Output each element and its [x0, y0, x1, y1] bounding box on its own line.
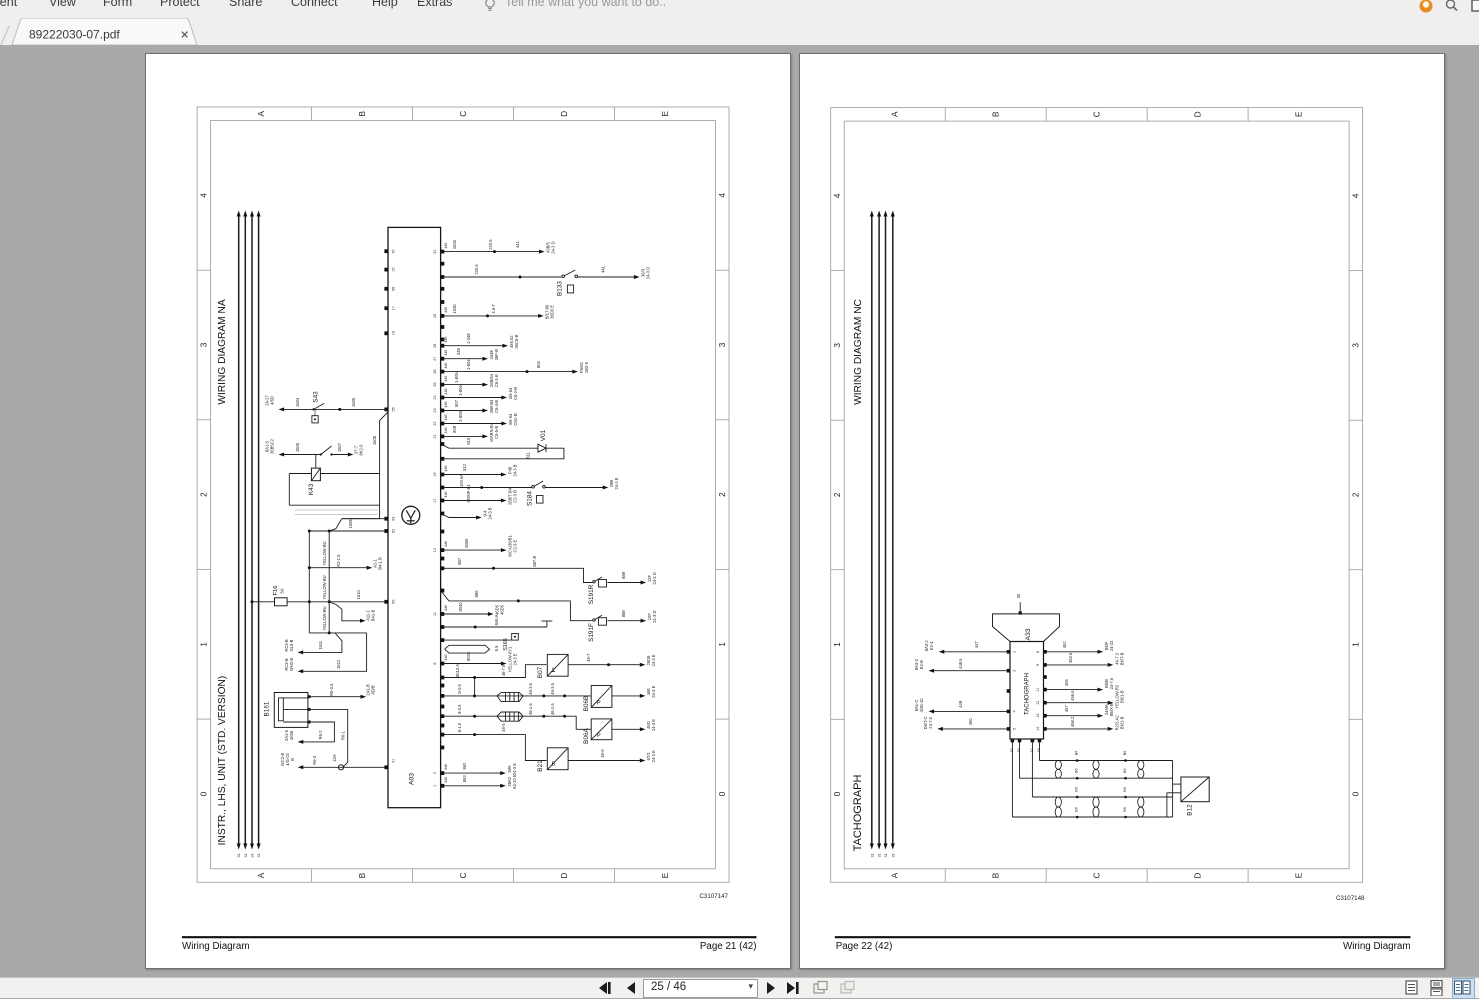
- A03 pin: [441, 472, 445, 476]
- source arrow: [279, 407, 285, 411]
- svg-text:4/6D: 4/6D: [270, 396, 275, 405]
- svg-text:B21: B21: [537, 759, 544, 771]
- A03 right pin: [441, 556, 445, 560]
- svg-text:450: 450: [968, 717, 973, 725]
- svg-text:17: 17: [433, 498, 437, 502]
- wire row 567: [309, 566, 367, 568]
- svg-text:8010.A: 8010.A: [455, 663, 460, 676]
- svg-text:27: 27: [433, 356, 437, 360]
- svg-text:3: 3: [200, 342, 209, 347]
- wire from A03: [441, 435, 483, 437]
- A03 pin: [441, 356, 445, 360]
- B161 wire 3: [303, 722, 334, 742]
- svg-text:36F-B: 36F-B: [494, 348, 499, 359]
- power bus wire 1: [238, 214, 240, 845]
- frame column tick bottom: [1146, 868, 1148, 882]
- bus wire 1 bottom arrow: [237, 843, 241, 849]
- wire from A03 to S191R: [441, 568, 593, 582]
- bus wire 1 bottom arrow: [870, 843, 874, 849]
- frame column tick bottom: [614, 868, 616, 882]
- svg-text:809: 809: [452, 425, 457, 433]
- svg-text:4: 4: [1013, 710, 1017, 712]
- junction: [328, 600, 331, 603]
- svg-text:1512: 1512: [336, 659, 341, 669]
- svg-text:457: 457: [1064, 704, 1069, 712]
- svg-text:1504: 1504: [295, 397, 300, 407]
- svg-text:24-3 E: 24-3 E: [513, 653, 518, 665]
- svg-text:18: 18: [1037, 748, 1041, 752]
- frame column tick bottom: [513, 868, 515, 882]
- destination arrow: [640, 662, 646, 666]
- previous page button: [624, 980, 640, 996]
- diode return wire: [441, 448, 564, 459]
- relay K43 coil body: [311, 468, 320, 481]
- svg-text:YELLOW-BU: YELLOW-BU: [322, 606, 327, 630]
- branch vertical wire: [308, 531, 310, 633]
- power bus wire 2: [244, 214, 246, 845]
- frame column tick bottom: [1045, 868, 1047, 882]
- svg-text:C6-2-B: C6-2-B: [513, 386, 518, 399]
- S43 body link: [314, 409, 316, 415]
- svg-text:46-7: 46-7: [586, 652, 591, 661]
- A03 pin 52: [384, 529, 388, 533]
- source arrow: [929, 709, 935, 713]
- svg-text:887: 887: [457, 557, 462, 565]
- svg-text:11: 11: [1036, 687, 1040, 691]
- svg-text:1-808: 1-808: [458, 410, 463, 421]
- svg-text:4: 4: [833, 193, 842, 198]
- next view button: [839, 980, 856, 996]
- A03 right pin: [441, 723, 445, 727]
- svg-text:2: 2: [1013, 669, 1017, 671]
- A33 bottom pin 17: [1031, 738, 1035, 742]
- power bus wire 3: [251, 214, 253, 845]
- destination arrow: [482, 408, 488, 412]
- wire from A03: [441, 409, 483, 411]
- destination arrow: [1108, 726, 1114, 730]
- svg-text:B41-B: B41-B: [371, 609, 376, 621]
- wire from A33 left: [934, 669, 1010, 671]
- sensor B07 body: [547, 654, 568, 676]
- PDF page 21: [145, 53, 791, 969]
- svg-text:17: 17: [392, 306, 396, 310]
- svg-text:25: 25: [433, 382, 437, 386]
- sender wire junction: [1076, 776, 1079, 779]
- svg-text:446: 446: [444, 654, 448, 660]
- svg-text:2: 2: [200, 491, 209, 496]
- wire from A33 left: [943, 727, 1010, 729]
- svg-text:C2-3 E: C2-3 E: [513, 539, 518, 552]
- svg-text:R6-3: R6-3: [312, 755, 317, 765]
- destination arrow: [634, 275, 640, 279]
- svg-text:C: C: [459, 110, 468, 116]
- svg-text:Wiring Diagram: Wiring Diagram: [182, 941, 250, 952]
- junction: [308, 566, 311, 569]
- junction: [542, 694, 545, 697]
- sender wire junction: [1076, 815, 1079, 818]
- wire from A03: [441, 422, 502, 424]
- svg-text:24-3 E: 24-3 E: [614, 477, 619, 489]
- frame row tick right: [716, 269, 730, 271]
- svg-text:446: 446: [444, 401, 448, 407]
- destination arrow: [298, 650, 304, 654]
- svg-text:24-3 D: 24-3 D: [652, 610, 657, 622]
- svg-text:8006: 8006: [464, 537, 469, 547]
- wire junction: [526, 370, 529, 373]
- svg-text:446: 446: [444, 427, 448, 433]
- frame column tick bottom: [311, 868, 313, 882]
- svg-text:S184: S184: [527, 490, 534, 505]
- svg-text:24-3 E: 24-3 E: [651, 750, 656, 762]
- tachograph sender wire: [1039, 739, 1041, 761]
- svg-text:100.6A: 100.6A: [459, 473, 464, 486]
- frame row tick right: [716, 568, 730, 570]
- document tab bar: [0, 18, 1479, 45]
- svg-text:R6-0.5: R6-0.5: [329, 682, 334, 695]
- A03 left pin 16: [384, 331, 388, 335]
- wire from A03 to S184: [441, 486, 532, 488]
- svg-text:B: B: [992, 872, 1001, 878]
- svg-text:5A: 5A: [280, 588, 285, 593]
- svg-text:31: 31: [884, 853, 888, 857]
- drawing frame outer border: [197, 107, 729, 882]
- svg-text:24-3 E: 24-3 E: [651, 685, 656, 697]
- svg-text:446: 446: [444, 604, 448, 610]
- A33 bottom pin 18: [1038, 738, 1042, 742]
- svg-text:8: 8: [1036, 650, 1040, 652]
- svg-text:810: 810: [466, 437, 471, 445]
- bus wire 4 top arrow: [891, 210, 895, 216]
- frame column tick top: [944, 107, 946, 121]
- frame row tick right: [1349, 718, 1363, 720]
- PDF page 22: [799, 53, 1445, 969]
- A03 right pin: [441, 529, 445, 533]
- K43 loop left vertical: [288, 473, 290, 505]
- junction: [473, 694, 476, 697]
- svg-text:1-805: 1-805: [454, 371, 459, 382]
- svg-text:446: 446: [444, 375, 448, 381]
- junction: [542, 714, 545, 717]
- junction: [308, 600, 311, 603]
- svg-text:14: 14: [1036, 726, 1040, 730]
- K43 pin 85 wire: [320, 472, 379, 474]
- svg-text:E: E: [1294, 872, 1303, 878]
- svg-text:B6/1-B: B6/1-B: [1119, 716, 1124, 729]
- wire from A03: [441, 662, 501, 664]
- svg-text:24-22: 24-22: [1109, 639, 1114, 650]
- sender wire pair1 top: [1040, 759, 1173, 761]
- svg-text:24-3 D: 24-3 D: [551, 241, 556, 253]
- svg-text:B12: B12: [1187, 803, 1194, 815]
- wire row to A03 pin 52: [309, 530, 388, 532]
- svg-text:888: 888: [621, 609, 626, 617]
- A03 pin 16: [441, 511, 445, 515]
- svg-text:23: 23: [433, 408, 437, 412]
- bend diagonal: [329, 518, 342, 530]
- sender wire junction: [1076, 759, 1079, 762]
- svg-text:8-1.5: 8-1.5: [457, 722, 462, 732]
- svg-text:55: 55: [392, 407, 396, 411]
- svg-text:446: 446: [444, 349, 448, 355]
- sender wire pair1 bottom: [1020, 777, 1173, 779]
- destination arrow: [539, 249, 545, 253]
- svg-text:E2-B: E2-B: [919, 659, 924, 668]
- S191F body: [599, 617, 607, 625]
- source arrow: [939, 649, 945, 653]
- svg-text:A: A: [891, 872, 900, 878]
- svg-text:24-7.6: 24-7.6: [928, 716, 933, 728]
- A03 pin: [441, 369, 445, 373]
- destination arrow: [501, 661, 507, 665]
- junction: [473, 714, 476, 717]
- A03 pin 5: [441, 714, 445, 718]
- svg-text:8: 8: [433, 662, 437, 664]
- bus wire 3 top arrow: [250, 210, 254, 216]
- svg-text:36C5-B: 36C5-B: [514, 334, 519, 348]
- svg-text:B: B: [358, 872, 367, 878]
- svg-text:1510: 1510: [356, 589, 361, 599]
- wire loop to A03 pin 53: [342, 505, 380, 519]
- destination arrow: [1098, 713, 1104, 717]
- svg-text:S43: S43: [313, 390, 320, 402]
- svg-text:0: 0: [718, 791, 727, 796]
- svg-text:452: 452: [1062, 640, 1067, 648]
- footer rule: [835, 936, 1411, 938]
- svg-text:12: 12: [1036, 700, 1040, 704]
- facing pages view button (selected): [1452, 978, 1475, 999]
- svg-text:16D-5: 16D-5: [584, 361, 589, 373]
- svg-text:8040: 8040: [458, 601, 463, 611]
- drawing frame inner border: [844, 121, 1349, 869]
- svg-text:1: 1: [200, 641, 209, 646]
- wire from A33 right: [1044, 650, 1098, 652]
- svg-text:1: 1: [1352, 641, 1361, 646]
- filter R2 body: [497, 712, 523, 721]
- svg-text:B6: B6: [1123, 768, 1127, 773]
- svg-text:31: 31: [878, 853, 882, 857]
- wire from A03: [441, 613, 488, 615]
- svg-text:B06A: B06A: [583, 727, 590, 743]
- A33 bottom pin 16: [1018, 738, 1022, 742]
- svg-text:B6: B6: [1075, 807, 1079, 812]
- svg-text:Page 21 (42): Page 21 (42): [700, 941, 757, 952]
- svg-text:31: 31: [433, 249, 437, 253]
- svg-text:B4-1 B: B4-1 B: [378, 556, 383, 569]
- svg-text:1508: 1508: [372, 435, 377, 445]
- wire row to A03 pin 41: [303, 766, 388, 768]
- A33 bottom pin 15: [1011, 738, 1015, 742]
- A03 pin: [441, 408, 445, 412]
- A03 pin 10: [441, 625, 445, 629]
- wire with bend from A03: [441, 513, 477, 517]
- svg-text:D: D: [560, 872, 569, 878]
- twisted pair symbol: [1093, 797, 1099, 807]
- active document tab: [12, 18, 197, 45]
- B161 wire 2: [308, 709, 348, 767]
- svg-text:446: 446: [444, 242, 448, 248]
- partial window icon at edge: [1471, 0, 1479, 14]
- A03 right pin: [441, 704, 445, 708]
- A33 left pin 3: [1007, 689, 1011, 693]
- B161 contact row 3: [283, 721, 308, 723]
- svg-text:46D5: 46D5: [500, 604, 505, 615]
- svg-text:A4-10 E: A4-10 E: [512, 774, 517, 789]
- wire from A03: [441, 344, 503, 346]
- A33 pin: [1043, 650, 1047, 654]
- svg-text:Wiring Diagram: Wiring Diagram: [1343, 941, 1411, 952]
- wire from A33 right: [1044, 727, 1108, 729]
- frame column tick bottom: [1247, 868, 1249, 882]
- svg-text:456.6: 456.6: [1070, 689, 1075, 700]
- A03 pin: [441, 548, 445, 552]
- svg-text:B6: B6: [1123, 807, 1127, 812]
- wire B21 to destination: [568, 759, 640, 761]
- svg-text:458.2: 458.2: [1070, 716, 1075, 727]
- svg-text:52: 52: [392, 528, 396, 532]
- wire from A03 to S165: [441, 639, 512, 641]
- A33 pin: [1043, 663, 1047, 667]
- frame column tick top: [1146, 107, 1148, 121]
- switch B133 contact: [562, 275, 565, 278]
- svg-text:3: 3: [833, 342, 842, 347]
- B161 inner contact: [279, 697, 284, 720]
- svg-text:28: 28: [433, 343, 437, 347]
- svg-text:8000F-B4: 8000F-B4: [466, 483, 471, 502]
- bus wire 4 top arrow: [257, 210, 261, 216]
- svg-text:36D3 E: 36D3 E: [550, 304, 555, 318]
- A33 top stub wire: [1019, 602, 1021, 614]
- wire from A03: [441, 499, 501, 501]
- svg-text:46-3.6: 46-3.6: [528, 682, 533, 694]
- svg-text:1: 1: [1013, 650, 1017, 652]
- bus wire 2 bottom arrow: [243, 843, 247, 849]
- bus wire 4 bottom arrow: [257, 843, 261, 849]
- power bus wire 4: [892, 214, 894, 845]
- power bus wire 1: [871, 214, 873, 845]
- svg-text:1-349: 1-349: [466, 332, 471, 343]
- svg-text:455: 455: [1064, 678, 1069, 686]
- power bus wire 3: [885, 214, 887, 845]
- A03 right pin: [441, 325, 445, 329]
- B161 contact row 1: [283, 696, 308, 698]
- sender wire junction: [1124, 815, 1127, 818]
- frame column tick top: [1045, 107, 1047, 121]
- svg-text:2: 2: [1352, 492, 1361, 497]
- wire junction: [493, 250, 496, 253]
- svg-text:E2-4: E2-4: [929, 640, 934, 649]
- svg-text:B: B: [290, 757, 295, 760]
- destination arrow: [500, 783, 506, 787]
- sensor B06B body: [591, 685, 612, 707]
- sender wire pair2 top: [1032, 796, 1172, 798]
- wire from A03 to B07: [441, 664, 547, 677]
- svg-text:863: 863: [462, 774, 467, 782]
- first page button: [597, 980, 613, 996]
- destination arrow: [1108, 700, 1114, 704]
- A03 pin: [441, 783, 445, 787]
- svg-text:862: 862: [462, 761, 467, 769]
- svg-text:1: 1: [718, 641, 727, 646]
- svg-text:B: B: [992, 111, 1001, 117]
- A03 pin 53: [384, 516, 388, 520]
- svg-text:4: 4: [718, 192, 727, 197]
- junction: [338, 407, 341, 410]
- svg-text:D: D: [560, 110, 569, 116]
- svg-text:446: 446: [444, 465, 448, 471]
- A03 pin 20: [441, 442, 445, 446]
- twisted pair symbol: [1055, 760, 1061, 769]
- frame row tick right: [1349, 568, 1363, 570]
- junction: [563, 714, 566, 717]
- K43 loop bottom: [289, 504, 379, 506]
- svg-text:3: 3: [1352, 342, 1361, 347]
- search icon: [1444, 0, 1460, 14]
- svg-text:1636: 1636: [452, 303, 457, 313]
- svg-text:887.B: 887.B: [532, 555, 537, 566]
- svg-text:1635: 1635: [452, 239, 457, 249]
- svg-text:441: 441: [600, 265, 605, 273]
- twisted pair symbol: [1138, 760, 1144, 769]
- connector unit B161 outline: [274, 692, 308, 727]
- svg-text:31: 31: [257, 853, 261, 857]
- A03 pin: [441, 395, 445, 399]
- junction: [328, 631, 331, 634]
- svg-text:1-806: 1-806: [458, 384, 463, 395]
- svg-text:C6-4-B: C6-4-B: [494, 399, 499, 412]
- svg-text:C: C: [1093, 111, 1102, 117]
- svg-text:0: 0: [833, 791, 842, 796]
- A03 pin 9: [441, 638, 445, 642]
- B161 wire 1: [308, 695, 361, 697]
- destination arrow: [501, 421, 507, 425]
- svg-text:✕: ✕: [180, 30, 189, 42]
- svg-text:A: A: [891, 111, 900, 117]
- svg-text:1507: 1507: [337, 442, 342, 452]
- svg-text:19: 19: [433, 472, 437, 476]
- svg-text:B6/T-B: B6/T-B: [1119, 652, 1124, 665]
- destination arrow: [603, 485, 609, 489]
- S191R body: [599, 579, 607, 587]
- gray optional wires: [295, 509, 378, 511]
- svg-text:46-3.5: 46-3.5: [550, 682, 555, 694]
- destination arrow: [367, 565, 373, 569]
- svg-text:YELLOW-BU: YELLOW-BU: [322, 575, 327, 599]
- svg-text:B: B: [552, 761, 556, 767]
- wire B06B to destination: [612, 694, 640, 696]
- wire from A33 left: [944, 650, 1010, 652]
- A33 pin: [1007, 650, 1011, 654]
- A33 right pin 10: [1043, 675, 1047, 679]
- power bus wire 2: [878, 214, 880, 845]
- next page button: [762, 980, 778, 996]
- B12 stub upper: [1173, 783, 1181, 785]
- sender wire junction: [1124, 795, 1127, 798]
- svg-text:24-3 E: 24-3 E: [512, 762, 517, 774]
- destination arrow: [482, 356, 488, 360]
- svg-text:INSTR., LHS, UNIT (STD. VERSIO: INSTR., LHS, UNIT (STD. VERSION): [217, 675, 228, 845]
- destination arrow: [502, 343, 508, 347]
- svg-text:21: 21: [433, 434, 437, 438]
- junction: [328, 529, 331, 532]
- tachograph sender wire: [1011, 739, 1013, 817]
- A03 pin 41: [384, 765, 388, 769]
- sender wire junction: [1124, 759, 1127, 762]
- svg-text:446: 446: [444, 362, 448, 368]
- frame row tick right: [716, 718, 730, 720]
- wire S43 row: [284, 408, 388, 410]
- wire from A03 through filter to B06B: [441, 694, 592, 696]
- wire from A03: [441, 473, 501, 475]
